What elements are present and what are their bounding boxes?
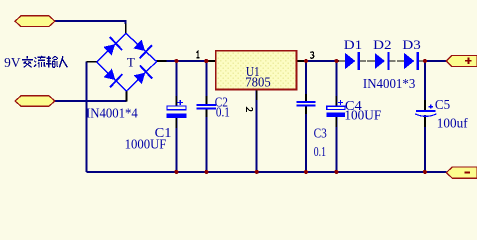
svg-text:0.1: 0.1 <box>216 105 230 120</box>
svg-text:1000UF: 1000UF <box>125 137 167 152</box>
svg-text:IN4001*3: IN4001*3 <box>363 76 416 91</box>
svg-text:9V: 9V <box>4 55 21 70</box>
svg-text:100uf: 100uf <box>437 115 468 130</box>
svg-text:C5: C5 <box>435 97 451 112</box>
svg-text:100UF: 100UF <box>344 107 381 122</box>
svg-text:C3: C3 <box>314 126 328 141</box>
svg-text:7805: 7805 <box>245 75 271 90</box>
svg-text:D2: D2 <box>373 37 391 52</box>
svg-text:T: T <box>127 55 135 70</box>
svg-text:IN4001*4: IN4001*4 <box>86 106 138 121</box>
svg-text:0.1: 0.1 <box>314 144 326 159</box>
svg-text:D3: D3 <box>402 37 420 52</box>
svg-text:D1: D1 <box>344 37 362 52</box>
